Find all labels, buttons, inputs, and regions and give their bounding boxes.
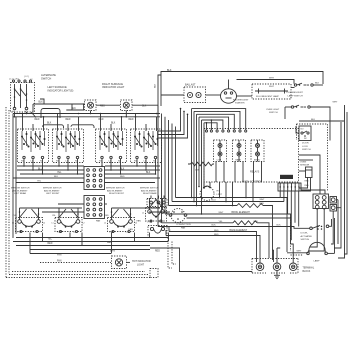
left vertical wire bundle xyxy=(157,110,159,227)
control connector pin strip xyxy=(278,183,301,191)
svg-text:( L2 ): ( L2 ) xyxy=(24,76,29,78)
connector block CB1 xyxy=(84,167,105,190)
svg-text:BLK: BLK xyxy=(277,225,282,227)
svg-text:BLU: BLU xyxy=(38,168,43,170)
wire BLK right xyxy=(299,120,344,122)
keypad ribbon (dark) xyxy=(280,175,293,179)
relay COM xyxy=(214,140,227,162)
wire stubs above E3 xyxy=(111,208,113,220)
wire RED bottom 1 xyxy=(13,241,168,243)
connector block CB2 xyxy=(84,196,105,219)
svg-text:FLUORESCENT: FLUORESCENT xyxy=(233,99,249,101)
svg-text:INFINITE SWITCH: INFINITE SWITCH xyxy=(43,188,62,190)
svg-text:BLK: BLK xyxy=(39,102,44,104)
terminal block dashed enclosure xyxy=(252,259,298,274)
fan element box xyxy=(148,226,167,238)
svg-text:RED: RED xyxy=(214,234,219,236)
svg-text:PUR: PUR xyxy=(13,215,18,217)
console border step right xyxy=(168,238,172,269)
control top pin circles xyxy=(245,130,247,132)
verticals down to terminal block xyxy=(276,248,278,262)
svg-text:RELAYS: RELAYS xyxy=(250,171,260,174)
svg-text:RIGHT FRONT: RIGHT FRONT xyxy=(109,193,125,195)
svg-text:LIMIT: LIMIT xyxy=(217,194,223,196)
wire bus U-loops into switch tops xyxy=(43,125,64,128)
svg-text:RED: RED xyxy=(35,119,40,121)
fluorescent lamp (dashed box) xyxy=(252,84,291,99)
surface element E4 (RIGHT REAR) xyxy=(146,208,167,222)
svg-text:OVEN LIGHT: OVEN LIGHT xyxy=(266,109,280,111)
right square terminal A xyxy=(330,197,337,204)
svg-text:BLK: BLK xyxy=(142,106,147,108)
wire drops below S1 xyxy=(23,159,25,166)
svg-text:L1: L1 xyxy=(52,222,54,224)
svg-text:BLK: BLK xyxy=(111,122,116,124)
wire to hot indicator xyxy=(40,262,111,264)
svg-text:NO: NO xyxy=(301,129,304,131)
node L1 supply terminals xyxy=(12,80,14,82)
svg-text:BROIL: BROIL xyxy=(254,159,261,161)
svg-text:FLUORESCENT LAMP: FLUORESCENT LAMP xyxy=(256,95,279,98)
svg-text:TERMINAL: TERMINAL xyxy=(303,267,315,270)
wire WHT row 2 xyxy=(165,213,288,215)
convection fan motor xyxy=(171,209,185,223)
svg-text:SWITCH: SWITCH xyxy=(301,239,310,241)
wire riser pair xyxy=(158,75,161,131)
broil element xyxy=(169,205,238,207)
right edge verticals xyxy=(338,105,345,258)
svg-text:ACTUATED: ACTUATED xyxy=(301,235,313,238)
svg-text:L1: L1 xyxy=(12,222,14,224)
relay BAKE xyxy=(233,140,246,162)
wire feeds above S1 xyxy=(22,120,24,131)
svg-text:BLK: BLK xyxy=(167,69,172,72)
infinite switch S3 (dashed box) xyxy=(96,129,127,163)
svg-text:OVEN CONTROL: OVEN CONTROL xyxy=(242,180,263,183)
wire diagonals above E1 xyxy=(20,209,27,218)
svg-text:BLK: BLK xyxy=(315,83,320,85)
wire ballast to starter xyxy=(206,94,221,96)
svg-text:RED: RED xyxy=(66,119,71,121)
svg-text:SENSOR: SENSOR xyxy=(300,165,310,167)
wire WHT to oven lamp xyxy=(287,252,308,254)
wire BLK top bus xyxy=(161,72,323,107)
svg-text:OVEN: OVEN xyxy=(300,161,307,163)
wire lamp drops xyxy=(90,111,92,114)
svg-text:BAKE: BAKE xyxy=(236,158,242,161)
svg-text:FLUORESCENT: FLUORESCENT xyxy=(287,92,304,94)
svg-text:SWITCH: SWITCH xyxy=(302,149,311,151)
svg-text:RIGHT SURFACE: RIGHT SURFACE xyxy=(102,82,123,86)
svg-text:SWITCH: SWITCH xyxy=(41,77,51,81)
svg-text:L1: L1 xyxy=(104,222,106,224)
svg-text:BALLAST: BALLAST xyxy=(185,84,196,87)
svg-text:INDICATOR LIGHT(S): INDICATOR LIGHT(S) xyxy=(48,89,74,93)
svg-text:BLU: BLU xyxy=(212,200,217,202)
wire feeds above S4 xyxy=(135,120,137,131)
svg-text:COM: COM xyxy=(217,159,222,161)
terminal screw 1 xyxy=(256,263,264,271)
svg-text:HOT INDICATOR: HOT INDICATOR xyxy=(132,260,151,263)
svg-text:RED: RED xyxy=(105,215,110,217)
svg-text:WHT: WHT xyxy=(260,199,266,201)
pin strip fan-out wires xyxy=(279,191,281,198)
wires joining element row to switches xyxy=(20,207,83,209)
right surface indicator light xyxy=(121,100,133,111)
svg-text:RED: RED xyxy=(129,119,134,121)
svg-text:INFINITE SWITCH: INFINITE SWITCH xyxy=(11,188,30,190)
svg-text:FAN: FAN xyxy=(96,220,101,223)
wires grid to edge xyxy=(299,159,313,161)
wires mid band xyxy=(13,177,84,179)
svg-text:LEFT SURFACE: LEFT SURFACE xyxy=(48,85,68,89)
svg-text:RED: RED xyxy=(305,181,310,183)
left bus verticals xyxy=(12,114,14,239)
terminal screw 2 xyxy=(273,263,281,271)
wire diagonals above E4 xyxy=(150,199,157,208)
svg-text:LEFT REAR: LEFT REAR xyxy=(14,192,26,195)
svg-text:RED: RED xyxy=(155,250,160,252)
wire RED long rows xyxy=(169,232,257,263)
terminal screw 3 xyxy=(289,263,297,271)
wire drops below S3 xyxy=(101,159,103,166)
dashed enclosure door lock / sensor xyxy=(297,124,328,191)
wires sensor to control xyxy=(299,170,306,172)
right square terminal B xyxy=(330,205,337,212)
wire bus row 1 xyxy=(13,113,160,115)
wire YEL bottom xyxy=(16,237,168,239)
wire RED bottom 2 xyxy=(16,245,150,247)
oven light switch xyxy=(291,106,293,108)
wire BLU/RED row xyxy=(172,201,284,203)
oven lamp xyxy=(309,242,325,253)
svg-text:RED: RED xyxy=(305,185,310,187)
svg-text:WHT: WHT xyxy=(297,251,303,253)
right terminal grid 2x3 xyxy=(313,194,329,209)
wire drops below S2 xyxy=(58,159,60,166)
svg-text:BLK: BLK xyxy=(72,108,77,110)
long wire to terminal block xyxy=(150,248,252,272)
oven sensor xyxy=(306,167,313,178)
wire stubs from alternate switch xyxy=(14,112,16,117)
hot indicator light xyxy=(112,256,127,269)
wire row plain xyxy=(187,217,292,219)
svg-text:RED: RED xyxy=(214,230,219,232)
ladder left vertical drops xyxy=(191,109,193,198)
svg-text:RED: RED xyxy=(120,176,125,178)
wire feeds above S2 xyxy=(57,120,59,131)
svg-text:BLK: BLK xyxy=(155,83,157,88)
svg-text:LOCK: LOCK xyxy=(302,146,308,148)
svg-text:LAMP SWITCH: LAMP SWITCH xyxy=(288,95,304,98)
svg-text:( L1 ) ( N ): ( L1 ) ( N ) xyxy=(9,78,19,80)
svg-text:L2: L2 xyxy=(43,222,45,224)
svg-text:INFINITE SWITCH: INFINITE SWITCH xyxy=(140,188,159,190)
svg-text:RED: RED xyxy=(99,119,104,121)
svg-text:AND ELEMENT: AND ELEMENT xyxy=(141,189,157,192)
svg-text:RED: RED xyxy=(48,243,53,245)
svg-text:ALTERNATE: ALTERNATE xyxy=(41,73,56,77)
svg-text:BLOCK: BLOCK xyxy=(303,271,311,273)
svg-text:LAMP: LAMP xyxy=(314,259,320,262)
fan switch box (dashed) xyxy=(147,199,167,207)
svg-text:WHT: WHT xyxy=(269,78,275,80)
dashed enclosure oven door area xyxy=(290,217,292,251)
infinite switch S2 (dashed box) xyxy=(53,129,84,163)
svg-text:YEL: YEL xyxy=(57,172,62,174)
console dashed border left xyxy=(5,107,7,278)
wire from hot indicator to right xyxy=(127,261,131,263)
wires from switches to connector blocks xyxy=(17,165,84,167)
svg-text:AND ELEMENT: AND ELEMENT xyxy=(44,189,60,192)
svg-text:BRN: BRN xyxy=(110,250,115,252)
svg-text:CONVECTION: CONVECTION xyxy=(176,224,191,226)
svg-text:AND ELEMENT: AND ELEMENT xyxy=(12,189,28,192)
console dashed border bottom xyxy=(6,277,150,279)
svg-text:LEFT FRONT: LEFT FRONT xyxy=(46,193,60,195)
wire diagonals above E3 xyxy=(112,209,119,218)
hi limit thermostat xyxy=(200,187,214,201)
door actuated switch xyxy=(310,227,313,230)
wire feeds above S3 xyxy=(100,120,102,131)
svg-text:BLK: BLK xyxy=(311,119,316,121)
wire drops below S4 xyxy=(136,159,138,166)
svg-text:FAN: FAN xyxy=(57,254,62,257)
svg-text:L2: L2 xyxy=(135,222,137,224)
surface element E2 (LEFT FRONT) xyxy=(55,218,82,232)
svg-text:INFINITE SWITCH: INFINITE SWITCH xyxy=(106,188,125,190)
wire WHT pair to lamp xyxy=(237,95,253,97)
wire YEL row + bake element xyxy=(162,222,234,224)
svg-text:BLK: BLK xyxy=(120,168,125,170)
surface element E1 (LEFT REAR) xyxy=(16,218,43,232)
door lock switch box xyxy=(299,126,311,141)
console border corner box xyxy=(150,269,158,278)
hi-limit leads to control xyxy=(203,182,205,188)
wires grid bottom drops xyxy=(310,209,317,248)
wire ladder bundle xyxy=(192,109,246,130)
svg-text:FAN: FAN xyxy=(57,260,62,263)
wire bus row 2 xyxy=(13,116,160,118)
svg-text:WHT: WHT xyxy=(333,101,339,103)
vertical drops bottom-left xyxy=(29,233,31,254)
svg-text:FAN: FAN xyxy=(129,228,134,231)
ladder feeds from left console xyxy=(158,109,181,131)
left surface indicator light xyxy=(85,100,97,111)
svg-text:BLK: BLK xyxy=(146,172,151,174)
svg-text:SWITCH: SWITCH xyxy=(269,112,278,114)
wire WHT row xyxy=(176,197,281,199)
wire stubs above E2 xyxy=(58,208,60,220)
svg-text:AND ELEMENT: AND ELEMENT xyxy=(107,189,123,192)
svg-text:FAN: FAN xyxy=(137,220,142,223)
fluorescent starter xyxy=(221,89,237,103)
svg-text:BLK: BLK xyxy=(54,176,59,178)
wire loop upper-left xyxy=(32,104,34,113)
wire BLK row xyxy=(158,227,310,229)
svg-text:L2: L2 xyxy=(83,222,85,224)
svg-text:WHT: WHT xyxy=(269,86,275,88)
wire loop below alternate switch xyxy=(41,109,60,119)
svg-text:BLK: BLK xyxy=(212,225,217,227)
svg-text:YEL: YEL xyxy=(48,239,53,241)
surface element E3 (RIGHT FRONT) xyxy=(108,218,135,232)
wire diagonals above E2 xyxy=(59,209,66,218)
infinite switch S1 (dashed box) xyxy=(18,129,49,163)
svg-text:RIGHT REAR: RIGHT REAR xyxy=(143,192,157,195)
oven control box (dashed) xyxy=(204,129,299,183)
svg-text:BLK: BLK xyxy=(47,122,52,124)
wire FAN feed xyxy=(30,253,111,255)
svg-text:LIGHT: LIGHT xyxy=(137,264,145,267)
relay coil (zigzag) xyxy=(191,162,213,166)
wire stubs above E1 xyxy=(19,208,21,220)
alternate switch (dashed enclosure) xyxy=(11,83,35,113)
wire stubs above E4 xyxy=(149,198,151,210)
svg-text:DOOR-: DOOR- xyxy=(301,232,309,234)
svg-text:DOOR: DOOR xyxy=(302,143,309,145)
svg-text:RED: RED xyxy=(100,106,105,108)
wires control bottom to rows xyxy=(219,182,221,198)
svg-text:L1: L1 xyxy=(142,212,144,214)
fluorescent lamp switch xyxy=(291,87,295,89)
infinite switch S4 (dashed box) xyxy=(131,129,162,163)
relay BROIL xyxy=(251,140,264,162)
svg-text:WHT: WHT xyxy=(219,212,225,214)
ground symbol xyxy=(276,271,278,275)
wires into terminal block from above xyxy=(259,262,261,263)
svg-text:STARTER: STARTER xyxy=(235,101,245,104)
svg-text:INDICATOR LIGHT: INDICATOR LIGHT xyxy=(102,85,125,89)
